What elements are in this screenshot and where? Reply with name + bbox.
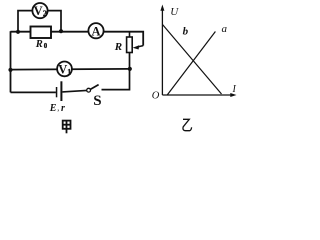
label yi (乙) drawn as strokes [183,119,192,130]
svg-text:b: b [183,25,189,37]
switch S pivot [87,88,91,92]
wire: V2 parallel branch [18,11,61,32]
graph line a [167,32,215,96]
svg-text:U: U [170,6,179,18]
label jia (甲) drawn as strokes [63,121,71,134]
svg-text:1: 1 [67,68,71,77]
rheostat R body [127,37,133,53]
svg-text:2: 2 [43,9,47,18]
node: junction dot right end of V1 branch [128,67,132,71]
svg-text:a: a [222,23,228,35]
node: junction dot right of R0 [59,29,63,33]
switch S lever [90,85,98,90]
battery E,r : short plate [56,87,58,97]
svg-text:R: R [114,41,122,53]
rheostat wiper arrow [138,46,143,47]
svg-text:V: V [34,4,43,18]
graph axis I (horizontal with arrow) [162,94,231,96]
resistor R0 [31,27,52,39]
svg-text:V: V [58,62,67,76]
battery E,r : long plate [60,81,62,101]
wire: rheostat bottom down to bottom-right corner [102,53,130,90]
svg-text:E: E [49,103,57,114]
graph axis U (vertical with arrow) [161,10,163,95]
voltmeter V1 [57,62,72,77]
svg-text:I: I [232,84,237,95]
svg-text:A: A [91,24,100,38]
svg-text:r: r [61,103,65,114]
svg-text:0: 0 [44,43,48,50]
svg-text:R: R [35,39,43,50]
wire: left vertical side of circuit [10,31,12,92]
svg-text:S: S [93,93,101,109]
ammeter A [88,23,103,38]
wire: top main wire with right corner down to wiper [11,32,144,46]
wire: battery to switch [62,90,86,92]
node: junction dot on left vertical at V1 branch [8,68,12,72]
svg-text:O: O [152,90,160,101]
node: junction dot left of R0 [16,30,20,34]
graph line b [163,25,222,95]
wire: branch from top wire to rheostat top [129,32,131,38]
wire: bottom left to battery [11,91,56,93]
wire: V1 branch horizontal [11,68,130,71]
voltmeter V2 [32,3,47,18]
svg-text:,: , [57,104,59,113]
